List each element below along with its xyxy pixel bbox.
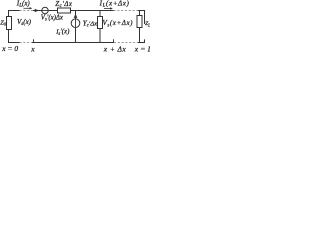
- svg-text:x: x: [30, 44, 35, 52]
- svg-text:x + Δx: x + Δx: [103, 44, 127, 52]
- svg-text:Yc′Δx: Yc′Δx: [83, 19, 97, 28]
- wire bottom dashed (omitted section left): [20, 42, 33, 44]
- node x+dx tick on bottom wire: [113, 39, 115, 42]
- impedance Z0 (left termination box): [7, 17, 12, 30]
- svg-text:IL(x): IL(x): [16, 0, 31, 9]
- svg-text:Vs(x): Vs(x): [17, 18, 32, 27]
- wire top dashed right: [114, 10, 139, 12]
- wire bottom right end hook: [138, 39, 145, 42]
- svg-text:x = 0: x = 0: [1, 44, 18, 52]
- wire top solid middle: [33, 10, 114, 12]
- svg-text:x = L: x = L: [134, 44, 150, 52]
- wire bottom solid middle: [32, 42, 114, 44]
- arrow under IL(x): [24, 7, 33, 9]
- svg-text:Vs′(x)Δx: Vs′(x)Δx: [41, 15, 63, 23]
- svg-text:Zc′Δx: Zc′Δx: [55, 0, 72, 9]
- svg-text:Is′(x): Is′(x): [55, 29, 70, 37]
- current direction arrowhead on top wire: [35, 9, 39, 13]
- wire bottom-left corner with stub: [9, 30, 20, 43]
- arrow under IL(x+dx): [104, 7, 113, 9]
- wire top-left corner with stub: [9, 11, 20, 17]
- wire bottom dashed right: [114, 42, 138, 44]
- svg-text:ZL: ZL: [145, 21, 150, 27]
- voltage source Vs' (series, circle): [42, 7, 48, 13]
- svg-text:Vs(x+Δx): Vs(x+Δx): [103, 19, 134, 28]
- load impedance ZL (right termination): [137, 11, 142, 43]
- wire top right corner solid: [138, 11, 145, 25]
- node x tick on bottom wire: [33, 39, 35, 42]
- admittance Yc'dx (shunt box): [98, 11, 103, 43]
- wire top dashed (omitted section left): [20, 10, 34, 12]
- current source Is' (shunt): [71, 11, 80, 43]
- series impedance Zc'dx box: [58, 8, 71, 13]
